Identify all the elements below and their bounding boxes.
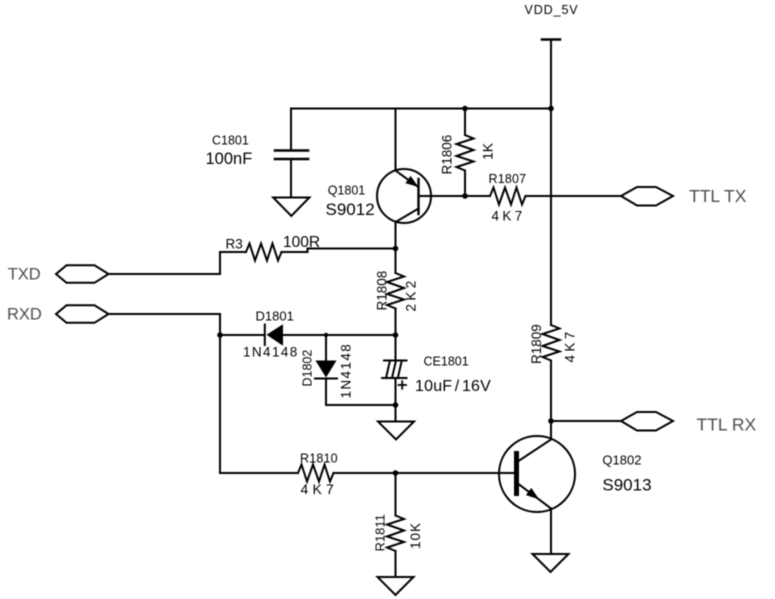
wire R1807 to TTL TX flag (526, 195, 622, 197)
svg-text:R1807: R1807 (489, 172, 527, 186)
wire node to D1801 (220, 334, 264, 336)
node dot R3/R1808 (393, 246, 399, 252)
wire R1809 down to Q1802 (550, 361, 552, 440)
svg-text:D1802: D1802 (300, 350, 314, 387)
svg-text:1N4148: 1N4148 (339, 343, 354, 399)
wire R1810 to Q1802 base (334, 472, 515, 474)
wire RXD down to R1810 (109, 314, 299, 473)
wire top rail (291, 108, 551, 110)
svg-text:Q1801: Q1801 (328, 184, 366, 198)
node dot rail/VDD (548, 106, 554, 112)
svg-text:2K2: 2K2 (404, 277, 419, 311)
svg-text:4K7: 4K7 (492, 209, 526, 224)
svg-text:4K7: 4K7 (301, 481, 339, 497)
node dot base/R1806 (462, 193, 468, 199)
svg-text:D1801: D1801 (256, 309, 294, 324)
svg-text:RXD: RXD (7, 306, 42, 324)
transistor Q1801 (377, 169, 431, 223)
resistor R1807 (490, 188, 526, 205)
svg-text:VDD_5V: VDD_5V (525, 3, 579, 17)
wire D1802 top lead (325, 335, 327, 361)
svg-text:R1811: R1811 (373, 514, 388, 551)
capacitor CE1801 (polarized) (382, 361, 407, 389)
node dot RXD branch (217, 332, 223, 338)
wire Q1801 emitter to rail (395, 109, 397, 171)
wire VDD rail down (550, 109, 552, 326)
ground under C1801 (273, 198, 309, 217)
resistor R1806 (457, 109, 474, 197)
svg-text:TXD: TXD (8, 266, 41, 284)
flag TTL TX (621, 187, 673, 206)
svg-text:4K7: 4K7 (563, 328, 578, 362)
svg-text:1K: 1K (479, 142, 495, 160)
svg-text:S9013: S9013 (602, 475, 651, 494)
svg-text:R1809: R1809 (529, 324, 544, 364)
node dot R1808/CE1801 (393, 332, 399, 338)
wire Q1801 collector down to node (395, 222, 397, 273)
resistor R1809 (543, 325, 560, 361)
wire node to CE1801 (395, 335, 397, 361)
wire CE1801 to ground (395, 378, 397, 422)
svg-text:10K: 10K (408, 522, 423, 549)
svg-text:TTL RX: TTL RX (697, 415, 757, 435)
node dot rail/R1806 (462, 106, 468, 112)
resistor R3 (246, 244, 282, 261)
flag RXD (56, 305, 109, 323)
svg-text:100nF: 100nF (206, 150, 253, 168)
svg-text:R3: R3 (226, 236, 243, 251)
wire Q1802 emitter to ground (550, 509, 552, 555)
svg-text:CE1801: CE1801 (424, 355, 469, 369)
node dot TTL RX (548, 418, 554, 424)
flag TXD (56, 265, 109, 283)
svg-text:TTL TX: TTL TX (689, 186, 747, 206)
svg-text:R1810: R1810 (300, 452, 338, 466)
node dot D1802/ground (393, 402, 399, 408)
wire TXD to R3 (109, 252, 247, 274)
svg-text:1N4148: 1N4148 (243, 345, 299, 360)
svg-text:S9012: S9012 (326, 200, 375, 219)
flag TTL RX (621, 412, 673, 431)
capacitor C1801 (275, 109, 308, 198)
wire D1802 bottom to node (326, 379, 396, 406)
ground under CE1801 (378, 422, 414, 440)
node dot R1810/R1811 (393, 470, 399, 476)
diode D1802 (315, 361, 337, 379)
wire R3 to node (with jog) (282, 249, 396, 253)
power VDD_5V symbol (542, 40, 560, 109)
wire Q1801 base to R1807 (419, 195, 490, 197)
node dot D1802 branch (324, 333, 328, 337)
svg-text:R1808: R1808 (375, 271, 390, 311)
diode D1801 (265, 324, 283, 346)
resistor R1811 (387, 473, 404, 577)
resistor R1810 (298, 465, 334, 482)
wire D1801 to node (283, 334, 396, 336)
svg-text:C1801: C1801 (212, 134, 249, 148)
ground under R1811 (378, 577, 414, 595)
resistor R1808 (387, 273, 404, 335)
svg-text:Q1802: Q1802 (602, 453, 641, 468)
ground under Q1802 (533, 554, 569, 572)
svg-text:R1806: R1806 (440, 135, 455, 175)
transistor Q1802 (499, 436, 575, 512)
wire node to TTL RX flag (551, 420, 621, 422)
